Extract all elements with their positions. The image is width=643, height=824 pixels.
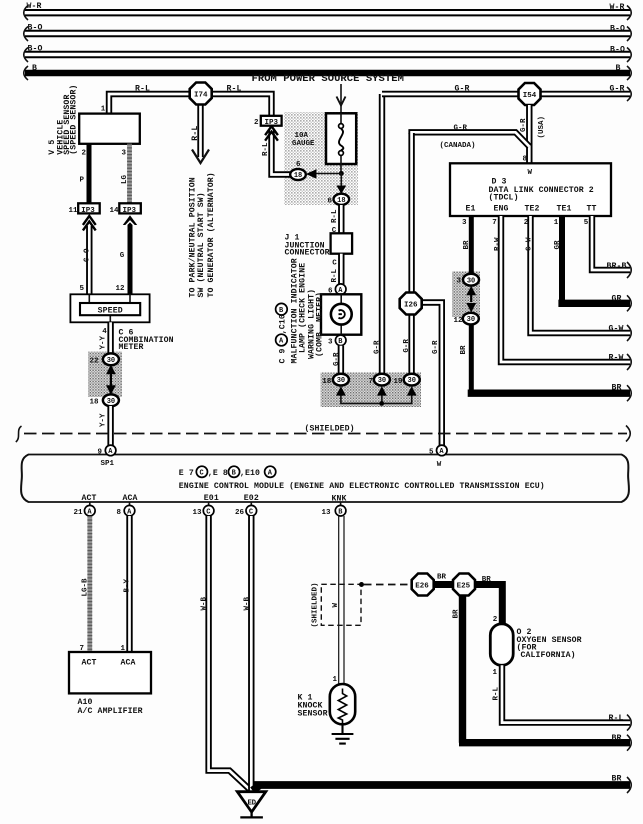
svg-text:E26: E26	[415, 582, 429, 590]
wire KNK shielded pair to knock sensor	[339, 516, 344, 684]
data link connector D3 box	[450, 163, 611, 216]
wire P from V5 pin 2	[87, 144, 92, 203]
svg-text:G-R: G-R	[373, 340, 381, 354]
svg-text:Y-Y: Y-Y	[100, 413, 108, 427]
svg-text:BR: BR	[612, 734, 622, 743]
svg-text:6: 6	[296, 161, 301, 169]
svg-text:ED: ED	[248, 799, 257, 807]
shield connector 18(30) of lamp	[333, 374, 349, 386]
svg-text:18: 18	[322, 378, 332, 386]
wire from power source into fuse with arrow	[340, 84, 342, 114]
svg-text:12: 12	[454, 317, 464, 325]
G-R run to I54	[382, 91, 630, 97]
svg-text:TE2: TE2	[525, 204, 540, 213]
wire R-L C to junction connector J1	[338, 205, 344, 233]
svg-text:ACA: ACA	[121, 658, 136, 667]
bottom BR ground bus to right edge	[253, 785, 631, 791]
ECU bottom pin 21 A ACT	[89, 502, 91, 506]
svg-text:10A: 10A	[295, 132, 309, 140]
wire from I26 to ECU pin 5 W	[421, 303, 442, 447]
ground ED triangle	[237, 792, 265, 812]
svg-text:I74: I74	[194, 91, 208, 99]
svg-text:3: 3	[122, 150, 127, 158]
shield ground ties with up arrows	[341, 392, 412, 403]
svg-text:1: 1	[554, 219, 559, 227]
G-R vertical wire from bus corner to connector 7(30)	[379, 94, 385, 374]
svg-text:G-R: G-R	[454, 125, 468, 133]
svg-text:BR: BR	[460, 345, 468, 355]
wire G-O from IP3 11 to combination meter pin 5	[86, 226, 92, 295]
svg-text:SP1: SP1	[101, 460, 115, 468]
wire BR from 12(30) to right edge	[469, 325, 474, 390]
svg-text:A10: A10	[78, 698, 93, 707]
svg-text:BR: BR	[437, 574, 447, 582]
svg-text:BR: BR	[612, 384, 622, 393]
svg-text:(TDCL): (TDCL)	[489, 192, 519, 202]
bus cut marks right	[627, 6, 631, 21]
G-R vertical wire (CANADA branch) through I26 to connector 19(30)	[408, 133, 414, 374]
hatch region around fuse 10A GAUGE	[284, 112, 358, 205]
svg-text:I26: I26	[404, 301, 418, 309]
wire G-R from lamp to shield connector 18(30)	[338, 346, 344, 374]
svg-text:B-O: B-O	[610, 25, 625, 34]
svg-text:SENSOR: SENSOR	[298, 710, 328, 719]
ECU bottom pin 13 C E01	[208, 502, 210, 506]
svg-text:TE1: TE1	[557, 204, 572, 213]
wire LG from V5 pin 3 (gray)	[127, 144, 132, 203]
svg-text:TO GENERATOR (ALTERNATOR): TO GENERATOR (ALTERNATOR)	[206, 172, 216, 297]
shield dashed box	[321, 584, 361, 625]
svg-text:METER: METER	[119, 343, 144, 352]
svg-text:R-L: R-L	[331, 268, 339, 282]
octagon E26	[412, 574, 434, 596]
fuse 10A GAUGE	[326, 113, 356, 164]
svg-text:,E10: ,E10	[240, 469, 260, 478]
wire C R-L to check engine lamp	[338, 254, 344, 284]
svg-text:8: 8	[117, 509, 122, 517]
svg-text:2: 2	[254, 119, 259, 127]
connector 2 IP3	[261, 116, 282, 126]
ground symbol below knock sensor	[332, 724, 354, 743]
svg-text:5: 5	[429, 449, 434, 457]
svg-text:B: B	[32, 64, 37, 73]
wire BR from D3 E1 pin 3	[469, 216, 474, 275]
svg-text:W: W	[528, 169, 533, 177]
svg-text:G-R: G-R	[403, 339, 411, 353]
svg-text:B-O: B-O	[28, 24, 43, 33]
wire Y-Y to ECU pin 9 SP1	[107, 406, 113, 446]
svg-text:21: 21	[74, 509, 84, 517]
svg-text:19: 19	[394, 378, 404, 386]
svg-text:ACA: ACA	[123, 494, 138, 503]
oxygen sensor Q2 capsule	[490, 624, 513, 666]
svg-text:3: 3	[457, 278, 462, 286]
svg-text:(CANADA): (CANADA)	[440, 142, 476, 150]
combination meter SPEED box C6	[70, 294, 149, 322]
pin 6 A of lamp	[335, 284, 346, 295]
svg-text:B: B	[616, 64, 621, 73]
svg-text:G-R: G-R	[455, 85, 470, 94]
shield drain dashed wire to E26	[359, 582, 364, 587]
shielded boundary dashed line	[24, 433, 627, 435]
svg-text:,C10: ,C10	[279, 314, 288, 334]
svg-text:FROM POWER SOURCE SYSTEM: FROM POWER SOURCE SYSTEM	[252, 73, 404, 85]
wire LG-B from ACT to A/C amplifier	[87, 516, 92, 652]
svg-text:G-W: G-W	[609, 325, 624, 334]
connector 14 IP3	[119, 203, 141, 213]
svg-text:R-L: R-L	[492, 686, 500, 700]
shield connector 3(30)	[463, 274, 479, 286]
svg-text:ENG: ENG	[494, 204, 509, 213]
svg-text:ACT: ACT	[82, 494, 97, 503]
svg-text:4: 4	[102, 328, 107, 336]
pin 3 B of lamp	[335, 335, 346, 346]
svg-text:3: 3	[328, 339, 333, 347]
wire W-B from E01 to ground ED	[209, 516, 251, 791]
svg-text:2: 2	[82, 150, 87, 158]
ECU pin 9 A SP1	[105, 445, 116, 456]
wire W-B from E02 to ground ED	[248, 516, 254, 792]
svg-text:13: 13	[322, 509, 332, 517]
svg-text:G: G	[120, 252, 125, 260]
hatch region combination meter shield connectors	[88, 352, 122, 398]
svg-text:ENGINE CONTROL MODULE (ENGINE: ENGINE CONTROL MODULE (ENGINE AND ELECTR…	[179, 481, 545, 491]
wire R-L from IP3 2 to connector 18	[272, 129, 292, 175]
svg-text:2: 2	[493, 616, 498, 624]
svg-text:7: 7	[492, 219, 497, 227]
svg-text:26: 26	[235, 509, 245, 517]
svg-text:G-O: G-O	[84, 248, 92, 262]
shield connector 18 (30)	[103, 394, 119, 406]
svg-text:9: 9	[98, 449, 103, 457]
svg-text:5: 5	[80, 285, 85, 293]
svg-text:B-O: B-O	[28, 45, 43, 54]
svg-text:BR: BR	[463, 240, 471, 250]
svg-text:G-R: G-R	[520, 118, 528, 132]
ECU pin 5 A W	[437, 445, 448, 456]
svg-text:13: 13	[193, 509, 203, 517]
bus cut marks left	[24, 6, 28, 21]
svg-text:I54: I54	[523, 92, 537, 100]
bus wire W-R	[25, 9, 630, 16]
svg-text:CONNECTOR: CONNECTOR	[285, 249, 330, 258]
G-R (CANADA) wire joining D3 pin 8	[412, 132, 530, 146]
svg-text:B-O: B-O	[610, 46, 625, 55]
shield connector 22 (30)	[103, 353, 119, 365]
svg-text:ACT: ACT	[82, 658, 97, 667]
svg-text:W: W	[332, 603, 340, 608]
svg-text:B-Y: B-Y	[123, 578, 131, 592]
svg-text:G-R: G-R	[333, 352, 341, 366]
svg-text:8: 8	[523, 156, 528, 164]
svg-text:(SHIELDED): (SHIELDED)	[312, 582, 320, 627]
svg-text:C: C	[200, 470, 204, 478]
svg-text:W-B: W-B	[244, 596, 252, 610]
bus wire B (solid)	[25, 70, 630, 77]
svg-text:LAMP (CHECK ENGINE: LAMP (CHECK ENGINE	[298, 263, 308, 353]
wire R-W from D3 ENG pin 7 to right edge	[501, 216, 630, 362]
wire BR from E25 to oxygen sensor	[475, 581, 502, 625]
svg-text:E01: E01	[204, 494, 219, 503]
double arrow between shield connectors	[110, 368, 112, 392]
svg-text:,E 8: ,E 8	[208, 469, 228, 478]
wire G-W from D3 TE2 pin 2 to right edge	[531, 216, 631, 333]
svg-text:(SPEED SENSOR): (SPEED SENSOR)	[68, 85, 78, 155]
svg-text:C 9: C 9	[279, 348, 288, 363]
wire B-Y from ACA to A/C amplifier	[126, 516, 132, 652]
svg-text:E02: E02	[244, 494, 259, 503]
wire R-L from V5 pin1 to I74 to IP3 connector 2	[109, 94, 272, 117]
svg-text:P: P	[80, 177, 85, 185]
svg-text:W-R: W-R	[27, 2, 42, 11]
wire BR-B from D3 TT pin 5 to right edge	[592, 216, 630, 270]
wire to shield connector 18 with left arrow	[314, 173, 341, 175]
shield connector 12(30)	[463, 313, 479, 325]
svg-text:7: 7	[369, 378, 374, 386]
octagon I26	[400, 293, 422, 315]
shield connector 19(30)	[404, 374, 420, 386]
svg-text:R-L: R-L	[609, 714, 624, 723]
svg-text:6: 6	[328, 198, 333, 206]
svg-text:IP3: IP3	[264, 119, 278, 127]
bus wire B-O (1)	[25, 30, 630, 37]
hatch region check-engine lamp shield connectors	[321, 373, 422, 408]
svg-text:CALIFORNIA): CALIFORNIA)	[521, 650, 576, 660]
svg-text:E1: E1	[466, 204, 476, 213]
hatch region D3 shield connectors	[452, 272, 480, 318]
svg-text:R-W: R-W	[609, 354, 624, 363]
svg-text:Y-Y: Y-Y	[100, 335, 108, 349]
svg-text:W: W	[437, 461, 442, 469]
svg-text:LG: LG	[121, 174, 129, 184]
svg-text:IP3: IP3	[123, 207, 137, 215]
svg-text:R-L: R-L	[135, 85, 150, 94]
svg-text:R-W: R-W	[494, 237, 502, 251]
svg-text:SPEED: SPEED	[98, 307, 123, 316]
wire BR from E25 down to right edge	[459, 595, 630, 743]
double arrow between D3 shield connectors	[470, 288, 472, 302]
svg-text:(COMB. METER): (COMB. METER)	[315, 292, 325, 357]
svg-text:W-R: W-R	[610, 3, 625, 12]
junction connector J1	[331, 233, 353, 253]
ECU bottom pin 26 C E02	[250, 502, 252, 506]
svg-text:GAUGE: GAUGE	[292, 140, 315, 148]
svg-text:(USA): (USA)	[538, 116, 546, 139]
octagon E25	[453, 574, 475, 596]
svg-text:E 7: E 7	[179, 469, 194, 478]
svg-text:1: 1	[333, 676, 338, 684]
svg-text:TT: TT	[587, 204, 597, 213]
malfunction indicator lamp box C9/C10	[321, 294, 361, 334]
ECU band engine control module	[28, 455, 622, 503]
svg-text:C: C	[332, 259, 337, 267]
svg-text:R-L: R-L	[331, 209, 339, 223]
svg-text:5: 5	[584, 219, 589, 227]
svg-text:BR: BR	[482, 576, 492, 584]
wire Y-Y from meter pin 4 to shield connectors	[107, 322, 113, 354]
ECU bottom pin 13 B KNK	[340, 502, 342, 506]
svg-text:3: 3	[462, 219, 467, 227]
shield connector 18 (fuse side)	[290, 169, 306, 180]
svg-text:BR: BR	[612, 775, 622, 784]
wire R-L from oxygen sensor to right edge	[502, 665, 630, 722]
svg-text:LG-B: LG-B	[81, 578, 89, 597]
bus wire B-O (2)	[25, 51, 630, 58]
wire R-L down from I74 with open arrow	[197, 104, 203, 157]
wire G from IP3 14 to combination meter pin 12	[128, 224, 133, 295]
svg-text:R-L: R-L	[262, 142, 270, 156]
wire GR from D3 TE1 pin 1 to right edge	[559, 216, 565, 300]
svg-text:14: 14	[110, 207, 120, 215]
svg-text:GR: GR	[612, 295, 622, 304]
svg-text:GR: GR	[554, 240, 562, 250]
octagon I54	[519, 83, 541, 105]
G-R (USA) wire from I54 to D3 pin 8	[526, 105, 532, 164]
svg-text:W-B: W-B	[201, 596, 209, 610]
junction node below fuse	[339, 171, 344, 176]
svg-text:A/C AMPLIFIER: A/C AMPLIFIER	[78, 706, 143, 716]
svg-text:KNK: KNK	[332, 495, 347, 504]
octagon I74	[190, 83, 212, 105]
svg-text:(SHIELDED): (SHIELDED)	[305, 424, 355, 434]
svg-text:R-L: R-L	[191, 126, 200, 141]
svg-text:BR-B: BR-B	[607, 262, 627, 271]
svg-text:BR: BR	[452, 609, 460, 619]
svg-text:22: 22	[90, 358, 100, 366]
component box V5 vehicle speed sensor	[79, 114, 140, 144]
svg-text:1: 1	[101, 106, 106, 114]
svg-text:SW (NEUTRAL START SW): SW (NEUTRAL START SW)	[196, 192, 206, 297]
wire BR between E26 and E25	[434, 581, 453, 588]
svg-text:E25: E25	[457, 582, 471, 590]
svg-text:IP3: IP3	[81, 207, 95, 215]
svg-text:G-R: G-R	[432, 340, 440, 354]
down arrow into shield connector 18	[340, 174, 342, 188]
shield connector 7(30)	[374, 374, 390, 386]
svg-text:11: 11	[69, 207, 79, 215]
svg-text:G-W: G-W	[525, 237, 533, 251]
svg-text:18: 18	[90, 399, 100, 407]
connector 11 IP3	[78, 203, 100, 213]
svg-text:R-L: R-L	[227, 85, 242, 94]
svg-text:1: 1	[493, 669, 498, 677]
ECU bottom pin 8 A ACA	[129, 502, 131, 506]
svg-text:12: 12	[116, 285, 126, 293]
